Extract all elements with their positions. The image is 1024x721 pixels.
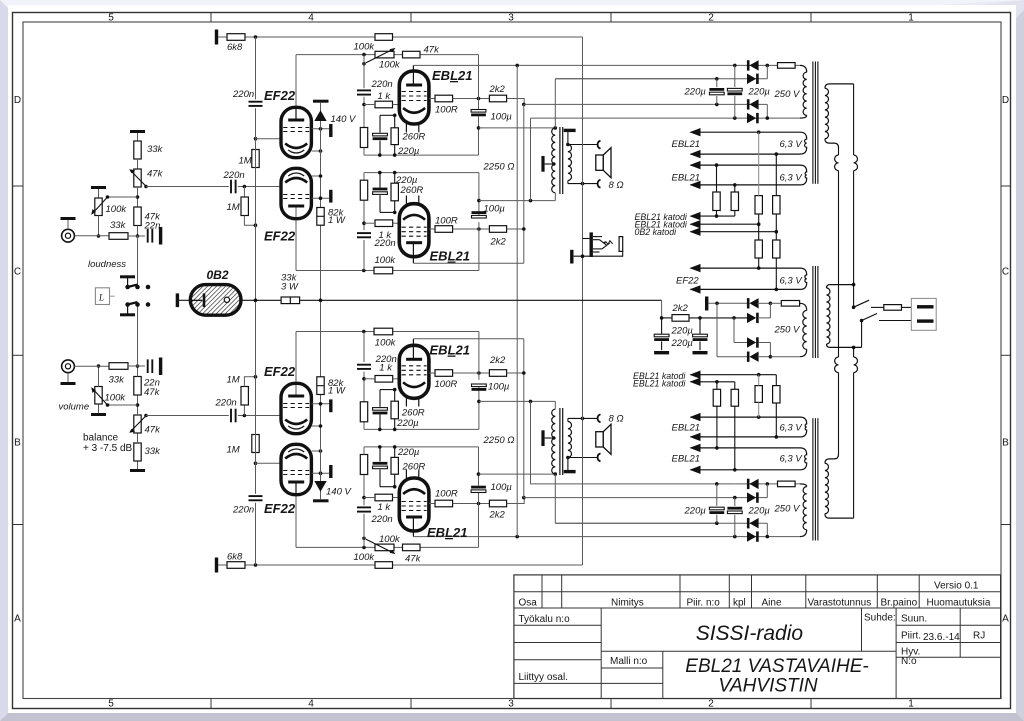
- svg-text:L: L: [98, 293, 104, 303]
- svg-text:260R: 260R: [402, 132, 426, 143]
- svg-text:Suun.: Suun.: [901, 614, 927, 625]
- svg-text:Br.paino: Br.paino: [881, 598, 918, 609]
- svg-text:260R: 260R: [400, 185, 424, 196]
- svg-text:1: 1: [908, 13, 914, 24]
- svg-text:2k2: 2k2: [672, 303, 689, 314]
- svg-text:A: A: [14, 614, 21, 625]
- svg-text:220n: 220n: [371, 514, 393, 525]
- svg-text:220n: 220n: [371, 79, 393, 90]
- svg-text:EF22: EF22: [264, 364, 296, 379]
- svg-text:0B2: 0B2: [207, 268, 229, 282]
- svg-text:A: A: [1002, 614, 1009, 625]
- svg-text:SISSI-radio: SISSI-radio: [696, 622, 804, 645]
- svg-text:100R: 100R: [435, 215, 458, 226]
- svg-text:220n: 220n: [375, 354, 397, 365]
- svg-text:1 W: 1 W: [328, 215, 346, 226]
- svg-text:2250 Ω: 2250 Ω: [483, 162, 515, 173]
- svg-text:C: C: [1002, 267, 1009, 278]
- svg-text:220µ: 220µ: [671, 338, 694, 349]
- svg-text:47k: 47k: [144, 387, 161, 398]
- svg-text:100k: 100k: [106, 204, 128, 215]
- svg-text:2: 2: [708, 699, 714, 710]
- svg-text:260R: 260R: [402, 462, 426, 473]
- svg-text:EBL21: EBL21: [430, 343, 470, 358]
- svg-text:6k8: 6k8: [227, 42, 243, 53]
- svg-text:220µ: 220µ: [748, 506, 771, 517]
- svg-text:loudness: loudness: [88, 259, 126, 270]
- svg-text:2k2: 2k2: [489, 355, 506, 366]
- svg-text:250 V: 250 V: [774, 324, 801, 335]
- svg-text:EBL21: EBL21: [427, 525, 467, 540]
- svg-text:2250 Ω: 2250 Ω: [483, 435, 515, 446]
- svg-text:volume: volume: [59, 402, 90, 413]
- svg-text:C: C: [14, 267, 21, 278]
- svg-text:6k8: 6k8: [227, 552, 243, 563]
- svg-text:0B2 katodi: 0B2 katodi: [635, 227, 678, 237]
- svg-text:33k: 33k: [145, 446, 162, 457]
- svg-text:Suhde:: Suhde:: [864, 613, 896, 624]
- svg-text:100k: 100k: [379, 534, 401, 545]
- svg-text:EF22: EF22: [264, 88, 296, 103]
- svg-text:100µ: 100µ: [484, 204, 506, 215]
- svg-text:EBL21: EBL21: [672, 454, 701, 465]
- svg-text:220n: 220n: [232, 504, 254, 515]
- svg-text:Piir. n:o: Piir. n:o: [687, 598, 721, 609]
- svg-text:EF22: EF22: [264, 501, 296, 516]
- svg-text:1: 1: [908, 699, 914, 710]
- svg-text:3: 3: [508, 699, 514, 710]
- svg-text:EBL21: EBL21: [432, 68, 472, 83]
- svg-text:6,3 V: 6,3 V: [780, 173, 804, 184]
- svg-text:2k2: 2k2: [489, 84, 506, 95]
- svg-text:220n: 220n: [232, 89, 254, 100]
- svg-text:RJ: RJ: [973, 631, 985, 642]
- svg-text:47k: 47k: [145, 425, 162, 436]
- svg-text:2: 2: [708, 13, 714, 24]
- svg-text:100k: 100k: [105, 393, 127, 404]
- svg-text:33k: 33k: [110, 220, 127, 231]
- svg-text:100R: 100R: [435, 489, 458, 500]
- svg-text:47k: 47k: [147, 169, 164, 180]
- svg-text:220µ: 220µ: [396, 418, 419, 429]
- svg-text:250 V: 250 V: [774, 504, 801, 515]
- svg-text:EBL21 VASTAVAIHE-: EBL21 VASTAVAIHE-: [685, 656, 868, 677]
- svg-text:100R: 100R: [435, 105, 458, 116]
- svg-text:100k: 100k: [375, 255, 397, 266]
- svg-text:N:o: N:o: [901, 656, 917, 667]
- svg-text:1M: 1M: [227, 375, 240, 386]
- svg-text:220µ: 220µ: [671, 326, 694, 337]
- svg-text:220µ: 220µ: [397, 447, 420, 458]
- svg-text:Työkalu n:o: Työkalu n:o: [519, 614, 571, 625]
- svg-text:Piirt.: Piirt.: [901, 631, 921, 642]
- svg-text:Aine: Aine: [762, 598, 782, 609]
- svg-text:220µ: 220µ: [684, 87, 707, 98]
- svg-text:5: 5: [108, 13, 114, 24]
- svg-text:D: D: [1002, 95, 1009, 106]
- svg-text:33k: 33k: [147, 144, 164, 155]
- svg-text:+ 3 -7.5 dB: + 3 -7.5 dB: [83, 443, 133, 454]
- svg-text:EBL21: EBL21: [672, 139, 701, 150]
- svg-text:EBL21: EBL21: [672, 173, 701, 184]
- svg-text:1M: 1M: [227, 445, 240, 456]
- svg-text:EF22: EF22: [676, 275, 699, 286]
- svg-text:47k: 47k: [405, 554, 422, 565]
- svg-text:100R: 100R: [435, 379, 458, 390]
- svg-text:D: D: [14, 95, 21, 106]
- svg-text:220µ: 220µ: [748, 87, 771, 98]
- svg-text:220n: 220n: [223, 170, 245, 181]
- svg-text:8 Ω: 8 Ω: [609, 180, 624, 191]
- svg-text:4: 4: [308, 699, 314, 710]
- svg-text:6,3 V: 6,3 V: [780, 454, 804, 465]
- svg-text:EBL21 katodi: EBL21 katodi: [633, 379, 686, 389]
- svg-text:6,3 V: 6,3 V: [780, 139, 804, 150]
- svg-text:1M: 1M: [239, 156, 252, 167]
- svg-text:100k: 100k: [379, 60, 401, 71]
- svg-text:100k: 100k: [354, 42, 376, 53]
- svg-text:8 Ω: 8 Ω: [609, 414, 624, 425]
- svg-text:B: B: [14, 438, 21, 449]
- svg-text:100µ: 100µ: [488, 382, 510, 393]
- svg-text:33k: 33k: [109, 375, 126, 386]
- svg-text:1 k: 1 k: [378, 91, 392, 102]
- svg-text:23.6.-14: 23.6.-14: [923, 632, 960, 643]
- svg-text:100k: 100k: [375, 337, 397, 348]
- svg-text:Versio 0.1: Versio 0.1: [934, 581, 979, 592]
- svg-text:47k: 47k: [424, 45, 441, 56]
- svg-text:100k: 100k: [354, 552, 376, 563]
- svg-text:balance: balance: [83, 432, 118, 443]
- svg-text:1 k: 1 k: [378, 502, 392, 513]
- svg-text:Nimitys: Nimitys: [611, 598, 644, 609]
- svg-text:EBL21: EBL21: [430, 249, 470, 264]
- svg-text:4: 4: [308, 13, 314, 24]
- svg-text:5: 5: [108, 699, 114, 710]
- svg-text:3: 3: [508, 13, 514, 24]
- svg-text:100µ: 100µ: [491, 111, 513, 122]
- svg-text:kpl: kpl: [733, 598, 746, 609]
- svg-text:2k2: 2k2: [490, 237, 507, 248]
- svg-text:1M: 1M: [227, 202, 240, 213]
- svg-text:6,3 V: 6,3 V: [780, 423, 804, 434]
- svg-text:140 V: 140 V: [326, 487, 352, 498]
- svg-text:EBL21: EBL21: [672, 423, 701, 434]
- svg-text:250 V: 250 V: [774, 89, 801, 100]
- svg-text:22n: 22n: [144, 221, 161, 232]
- svg-text:100µ: 100µ: [491, 482, 513, 493]
- svg-text:EF22: EF22: [264, 229, 296, 244]
- svg-text:220n: 220n: [215, 398, 237, 409]
- svg-text:VAHVISTIN: VAHVISTIN: [718, 675, 818, 696]
- svg-text:Malli n:o: Malli n:o: [610, 656, 648, 667]
- svg-text:260R: 260R: [401, 408, 425, 419]
- svg-text:3 W: 3 W: [281, 282, 299, 293]
- svg-text:220µ: 220µ: [684, 506, 707, 517]
- svg-text:Liittyy osal.: Liittyy osal.: [519, 672, 568, 683]
- svg-text:Osa: Osa: [519, 598, 538, 609]
- svg-text:2k2: 2k2: [489, 509, 506, 520]
- svg-text:Varastotunnus: Varastotunnus: [808, 598, 872, 609]
- svg-text:220n: 220n: [374, 238, 396, 249]
- svg-text:Huomautuksia: Huomautuksia: [927, 598, 991, 609]
- svg-text:6,3 V: 6,3 V: [780, 275, 804, 286]
- svg-text:1 W: 1 W: [328, 386, 346, 397]
- svg-text:220µ: 220µ: [397, 146, 420, 157]
- svg-text:B: B: [1002, 438, 1009, 449]
- svg-text:140 V: 140 V: [331, 114, 357, 125]
